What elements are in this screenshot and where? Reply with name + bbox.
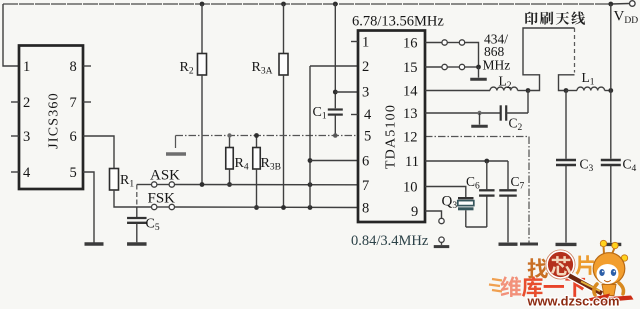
svg-text:C7: C7	[511, 174, 525, 192]
svg-text:13: 13	[403, 106, 418, 122]
svg-text:6: 6	[70, 129, 77, 145]
svg-text:R4: R4	[235, 156, 249, 173]
svg-text:JICS360: JICS360	[47, 92, 62, 149]
svg-text:2: 2	[362, 59, 369, 75]
svg-text:C1: C1	[313, 105, 327, 122]
svg-text:R2: R2	[180, 60, 194, 77]
svg-text:2: 2	[23, 95, 30, 111]
svg-text:TDA5100: TDA5100	[384, 104, 399, 169]
svg-text:Q3: Q3	[442, 194, 458, 212]
svg-text:5: 5	[364, 129, 371, 145]
svg-text:6: 6	[362, 154, 369, 170]
svg-text:9: 9	[411, 204, 418, 220]
svg-text:R3B: R3B	[261, 156, 281, 173]
svg-text:0.84/3.4MHz: 0.84/3.4MHz	[351, 233, 429, 249]
svg-text:C6: C6	[466, 174, 480, 192]
svg-text:4: 4	[23, 165, 31, 181]
svg-text:ASK: ASK	[150, 168, 180, 184]
svg-text:R3A: R3A	[252, 60, 273, 77]
svg-text:VDD: VDD	[614, 9, 639, 27]
svg-text:C3: C3	[580, 157, 594, 175]
svg-text:R1: R1	[120, 173, 134, 190]
svg-text:16: 16	[403, 36, 418, 52]
svg-text:FSK: FSK	[148, 191, 176, 207]
svg-text:L1: L1	[582, 70, 595, 88]
svg-text:11: 11	[405, 154, 419, 170]
svg-text:MHz: MHz	[483, 58, 511, 73]
svg-text:3: 3	[362, 85, 369, 101]
svg-text:8: 8	[362, 201, 369, 217]
svg-text:1: 1	[23, 59, 30, 75]
svg-text:C5: C5	[146, 217, 160, 234]
svg-text:7: 7	[70, 95, 77, 111]
svg-text:C4: C4	[623, 157, 637, 175]
svg-text:www.dzsc.com: www.dzsc.com	[527, 294, 620, 309]
svg-text:15: 15	[403, 60, 418, 76]
svg-text:5: 5	[70, 165, 77, 181]
svg-text:L2: L2	[499, 74, 512, 92]
svg-text:14: 14	[403, 84, 418, 100]
svg-text:C2: C2	[509, 116, 523, 134]
svg-text:6.78/13.56MHz: 6.78/13.56MHz	[352, 14, 444, 30]
svg-text:3: 3	[23, 129, 30, 145]
svg-text:8: 8	[70, 59, 77, 75]
svg-text:1: 1	[362, 35, 369, 51]
svg-text:4: 4	[364, 107, 372, 123]
svg-text:7: 7	[362, 178, 369, 194]
svg-text:10: 10	[403, 180, 418, 196]
svg-text:12: 12	[403, 130, 418, 146]
